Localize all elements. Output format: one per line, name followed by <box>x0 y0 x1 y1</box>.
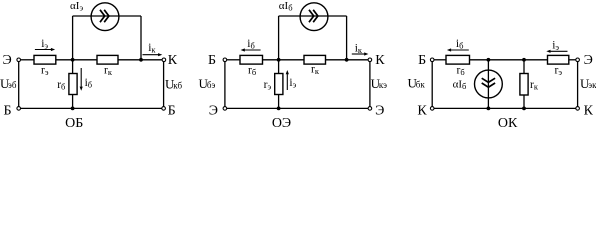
wire right drop down to node B <box>140 16 142 60</box>
current iб arrow <box>241 48 261 51</box>
wire left port vertical <box>431 62 433 107</box>
wire left port vertical <box>18 62 20 107</box>
resistor rэ vertical <box>275 74 283 95</box>
current source U1 circle <box>91 3 119 31</box>
svg-text:αIэ: αIэ <box>70 0 83 13</box>
bottom wire <box>21 107 162 109</box>
wire rк to К terminal <box>118 59 162 61</box>
wire right port vertical <box>577 62 579 107</box>
terminal Э circle <box>576 58 580 62</box>
wire rб to node G <box>470 59 548 61</box>
svg-text:rк: rк <box>311 63 320 76</box>
terminal Э bottom-left label <box>209 103 218 118</box>
current source U2 circle <box>300 3 328 31</box>
terminal К bottom-right label <box>584 103 594 118</box>
svg-text:rб: rб <box>248 65 256 78</box>
current iб arrow <box>447 48 469 51</box>
terminal К label <box>168 53 178 68</box>
resistor rк <box>97 55 118 64</box>
current iэ arrow <box>35 48 55 51</box>
svg-text:Б: Б <box>168 103 176 118</box>
current source U2 arrow line <box>300 15 328 17</box>
svg-text:ОБ: ОБ <box>65 116 83 128</box>
label Uкб <box>165 76 182 91</box>
current iэ arrow <box>546 50 567 53</box>
wire rк to bottom <box>523 95 525 108</box>
label iэ <box>289 77 296 90</box>
wire node A down to rб <box>72 60 74 74</box>
label Uбэ <box>199 76 216 91</box>
terminal К circle <box>368 58 372 62</box>
wire Б to rб <box>227 59 240 61</box>
svg-text:rк: rк <box>530 79 539 92</box>
label αIб <box>453 78 467 91</box>
terminal Б left circle <box>17 107 21 111</box>
terminal К bottom-left label <box>417 103 427 118</box>
svg-text:αIб: αIб <box>279 0 293 13</box>
current source U2 chevrons <box>309 10 318 22</box>
svg-text:К: К <box>584 103 594 118</box>
svg-text:Э: Э <box>3 53 12 68</box>
svg-text:iэ: iэ <box>289 77 296 90</box>
svg-text:ОЭ: ОЭ <box>272 116 291 128</box>
terminal Б circle <box>223 58 227 62</box>
label rк <box>311 63 320 76</box>
svg-text:Б: Б <box>418 53 426 68</box>
label rэ <box>41 65 49 78</box>
label iб <box>247 38 255 51</box>
terminal Э bottom-left circle <box>223 107 227 111</box>
svg-text:бк: бк <box>416 80 426 90</box>
wire left port vertical <box>224 62 226 107</box>
wire Э to resistor rэ <box>21 59 34 61</box>
resistor rб <box>240 55 263 64</box>
terminal Б circle <box>430 58 434 62</box>
label rэ <box>555 65 563 78</box>
terminal К circle <box>162 58 166 62</box>
svg-text:К: К <box>168 53 178 68</box>
svg-text:iб: iб <box>85 77 93 90</box>
svg-text:rэ: rэ <box>264 79 272 92</box>
label Uбк <box>408 76 426 91</box>
svg-text:Б: Б <box>208 53 216 68</box>
label rб <box>57 79 65 92</box>
svg-text:rб: rб <box>457 65 465 78</box>
resistor rб vertical <box>69 74 77 95</box>
terminal Э (emitter) label <box>3 53 12 68</box>
terminal Э label <box>584 53 593 68</box>
node B junction <box>139 58 143 62</box>
terminal Б label <box>208 53 216 68</box>
label rэ <box>264 79 272 92</box>
label rб <box>457 65 465 78</box>
current iк arrow <box>352 52 369 55</box>
wire rэ to Э <box>569 59 576 61</box>
svg-text:эк: эк <box>588 80 596 90</box>
svg-text:Б: Б <box>3 103 11 118</box>
svg-text:кб: кб <box>173 80 182 90</box>
wire node H down to rк <box>523 60 525 74</box>
wire current source to right drop <box>119 15 141 17</box>
label Uэб <box>0 76 17 91</box>
caption ОК <box>498 116 518 131</box>
resistor rэ <box>34 55 56 64</box>
caption ОБ <box>65 116 83 131</box>
node H junction rк top <box>522 58 526 62</box>
wire node D up to loop <box>278 16 280 60</box>
wire Б to rб <box>434 59 446 61</box>
terminal К bottom-left circle <box>430 107 434 111</box>
label Uкэ <box>371 76 388 91</box>
terminal Б right label <box>168 103 176 118</box>
wire node D down to rэ <box>278 60 280 74</box>
current iк arrow <box>143 53 163 56</box>
svg-text:rб: rб <box>57 79 65 92</box>
resistor rб <box>446 55 470 64</box>
current source U3 circle <box>475 70 503 98</box>
wire top loop left <box>279 15 300 17</box>
wire right port vertical <box>369 62 371 107</box>
terminal К label <box>375 53 385 68</box>
label rб <box>248 65 256 78</box>
wire right port vertical <box>163 62 165 107</box>
node A junction <box>71 58 75 62</box>
wire top loop left to current source <box>73 15 91 17</box>
label iб <box>85 77 93 90</box>
svg-text:К: К <box>417 103 427 118</box>
svg-text:Э: Э <box>375 103 384 118</box>
wire rэ to node A <box>56 59 97 61</box>
resistor rэ <box>548 55 569 64</box>
svg-text:αIб: αIб <box>453 78 467 91</box>
terminal Б right circle <box>162 107 166 111</box>
wire rб to node D <box>263 59 305 61</box>
label rк <box>530 79 539 92</box>
resistor rк vertical <box>520 74 528 96</box>
svg-text:iб: iб <box>456 38 464 51</box>
label iэ <box>41 38 48 51</box>
svg-text:эб: эб <box>8 80 17 90</box>
caption ОЭ <box>272 116 291 131</box>
label Uэк <box>580 76 596 91</box>
node D junction <box>277 58 281 62</box>
svg-text:Э: Э <box>209 103 218 118</box>
svg-text:iэ: iэ <box>552 39 559 52</box>
current iэ arrow <box>286 70 289 90</box>
svg-text:rэ: rэ <box>41 65 49 78</box>
svg-text:Э: Э <box>584 53 593 68</box>
node C junction rб bottom <box>71 107 75 111</box>
wire loop right drop <box>346 16 348 60</box>
svg-text:бэ: бэ <box>207 80 216 90</box>
node F junction rэ bottom <box>277 107 281 111</box>
label rк <box>104 65 113 78</box>
wire node A up to current source loop <box>72 16 74 60</box>
resistor rк <box>304 55 326 64</box>
label iк <box>148 42 156 55</box>
svg-text:rэ: rэ <box>555 65 563 78</box>
bottom wire <box>227 107 368 109</box>
current source U1 chevrons <box>100 10 109 22</box>
terminal Э bottom-right label <box>375 103 384 118</box>
current iб arrow <box>80 68 83 91</box>
label iк <box>355 43 363 56</box>
svg-text:iэ: iэ <box>41 38 48 51</box>
svg-text:iб: iб <box>247 38 255 51</box>
svg-text:iк: iк <box>355 43 363 56</box>
terminal Э bottom-right circle <box>368 107 372 111</box>
current source U3 arrow line <box>487 60 489 109</box>
current source U1 arrow line <box>91 15 119 17</box>
node E junction <box>345 58 349 62</box>
node G junction <box>487 58 491 62</box>
svg-text:iк: iк <box>148 42 156 55</box>
node J junction rк bottom <box>522 107 526 111</box>
terminal Б left label <box>3 103 11 118</box>
wire loop right top <box>328 15 347 17</box>
current source U3 chevrons <box>482 78 495 87</box>
terminal Б label <box>418 53 426 68</box>
node I junction source bottom <box>487 107 491 111</box>
label iэ <box>552 39 559 52</box>
svg-text:ОК: ОК <box>498 116 518 128</box>
svg-text:К: К <box>375 53 385 68</box>
label iб <box>456 38 464 51</box>
wire rк to К <box>326 59 369 61</box>
bottom wire <box>434 107 576 109</box>
terminal К bottom-right circle <box>576 107 580 111</box>
svg-text:кэ: кэ <box>379 80 387 90</box>
terminal Э circle <box>17 58 21 62</box>
svg-text:rк: rк <box>104 65 113 78</box>
wire rб to bottom <box>72 95 74 109</box>
label αIэ <box>70 0 83 13</box>
label αIб <box>279 0 293 13</box>
wire rэ to bottom <box>278 95 280 109</box>
